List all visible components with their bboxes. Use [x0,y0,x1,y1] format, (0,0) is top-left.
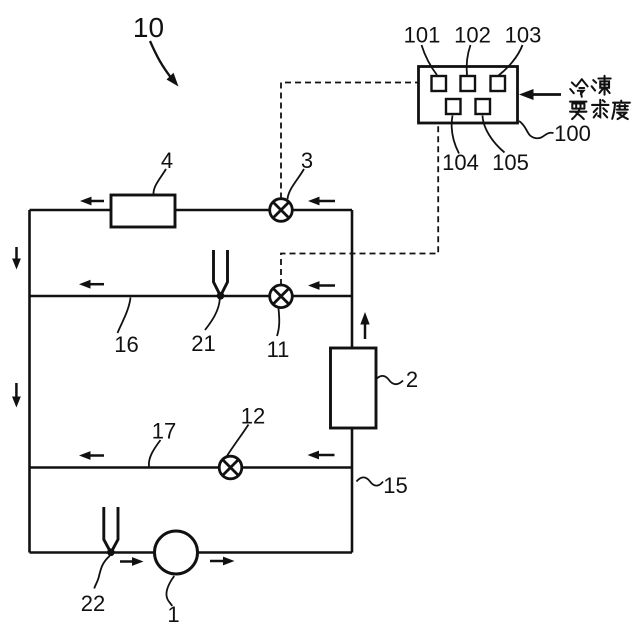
arrow left on line 17 right [308,451,335,460]
leader 12 [226,425,249,458]
valve 11 [270,285,293,308]
svg-text:105: 105 [492,150,529,175]
svg-text:104: 104 [442,150,479,175]
flow arrows [12,41,561,566]
kanji TOU (freeze) [592,76,611,95]
svg-text:16: 16 [114,332,138,357]
wire right vertical 15 [351,210,354,553]
wire left vertical [28,210,31,553]
controller 100 box [419,67,518,124]
arrow down on left line lower [12,383,21,408]
leader 21 [205,299,220,330]
leader 16 [118,298,131,334]
valve 12 [219,456,242,479]
svg-text:10: 10 [133,12,164,43]
svg-text:3: 3 [301,148,313,173]
wire top horizontal [30,209,353,212]
arrow left on line 17 left [79,451,104,460]
controller square 104 [446,99,461,114]
valve 3 [270,199,293,222]
arrow right after pump 1 [210,557,235,566]
sensor 21 fork [214,250,228,300]
svg-text:17: 17 [152,419,176,444]
svg-text:21: 21 [191,331,215,356]
leader 104 [452,116,459,154]
arrow left on top line left [80,197,104,206]
leader 4 [153,169,166,195]
arrow right after sensor 22 [120,557,144,566]
leader 2 tilde [376,376,404,384]
leader 100 [519,121,554,138]
controller square 102 [461,76,476,91]
component 4 rectangle [111,195,175,227]
arrow left right of valve 3 [308,197,335,206]
controller square 101 [432,76,447,91]
leader 3 [288,169,305,199]
kanji text refrigeration demand (hand drawn) [570,76,630,119]
arrow into controller (refrigeration demand) [519,89,561,100]
arrow down on left line upper [12,247,21,270]
leader lines [94,45,553,606]
leader 22 [94,556,110,589]
wire line 17 [30,466,353,469]
svg-text:2: 2 [406,367,418,392]
control dashed line valve11 to controller [281,124,438,286]
leader 1 [166,576,174,606]
svg-text:11: 11 [267,337,290,362]
svg-text:1: 1 [167,602,179,627]
svg-text:22: 22 [81,591,105,616]
svg-text:15: 15 [383,473,407,498]
leader 103 [499,45,523,76]
svg-text:102: 102 [454,23,491,48]
wire bottom horizontal [30,551,353,554]
arrow left right of valve 11 [308,281,335,290]
svg-text:12: 12 [241,404,265,429]
arrow left on line 16 left [79,280,104,289]
kanji KYUU (demand) [592,100,608,118]
wire line 16 [30,295,353,298]
leader 101 [422,45,438,75]
kanji DO (degree) [612,101,630,119]
kanji YOU (require) [570,102,586,119]
svg-text:101: 101 [404,23,441,48]
sensor 22 fork [104,507,118,556]
control dashed line valve3 to controller [281,83,418,199]
kanji REI (cold) [570,79,587,97]
svg-text:103: 103 [505,23,542,48]
arrow curved from label 10 [150,41,179,87]
leader 105 [483,116,505,153]
leader 11 [277,309,279,337]
svg-text:100: 100 [554,121,591,146]
svg-text:4: 4 [161,148,173,173]
leader 15 tilde [357,477,384,485]
leader 17 [149,440,161,467]
pump 1 [155,531,198,574]
component 2 rectangle [331,348,377,428]
controller square 105 [476,99,491,114]
controller square 103 [491,76,506,91]
leader 102 [467,45,471,75]
arrow up above component 2 [360,312,369,339]
